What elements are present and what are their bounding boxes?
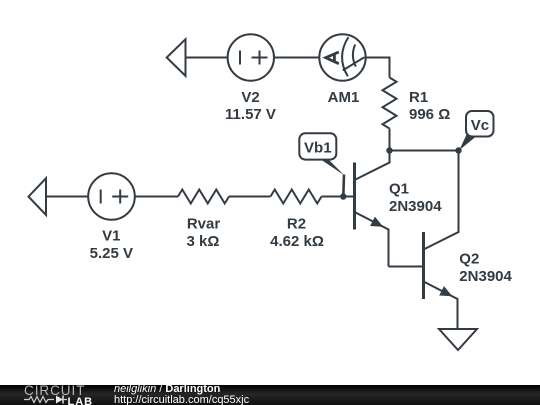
ammeter AM1: [319, 34, 365, 80]
svg-text:2N3904: 2N3904: [459, 268, 512, 285]
footer bar: [0, 385, 540, 405]
svg-text:Rvar: Rvar: [187, 216, 221, 233]
transistor Q1: [355, 151, 390, 267]
wire node A to node B: [390, 150, 459, 152]
svg-text:4.62 kΩ: 4.62 kΩ: [270, 233, 324, 250]
svg-text:3 kΩ: 3 kΩ: [187, 233, 220, 250]
svg-text:V2: V2: [241, 89, 259, 106]
wire R1 to node A: [389, 129, 391, 151]
svg-text:996 Ω: 996 Ω: [409, 106, 450, 123]
node label flag Vb1: [299, 133, 344, 196]
footer author / title: [114, 384, 220, 394]
ground: [439, 329, 477, 350]
svg-text:Q2: Q2: [459, 251, 479, 268]
svg-text:Vc: Vc: [471, 117, 489, 134]
footer url: [114, 394, 249, 405]
svg-text:Q1: Q1: [389, 180, 409, 197]
svg-text:5.25 V: 5.25 V: [90, 245, 133, 262]
wire Rvar to R2: [229, 196, 271, 198]
wire R2 to Q1 base: [322, 196, 355, 198]
ammeter A glyph: [326, 52, 339, 64]
resistor R1: [383, 78, 397, 129]
CircuitLab logo: [0, 385, 100, 405]
wire AM1 to R1: [366, 58, 390, 78]
svg-text:11.57 V: 11.57 V: [225, 106, 276, 123]
net flag for V2 negative terminal: [167, 39, 186, 76]
resistor R2: [271, 190, 322, 204]
wire flag to V1: [46, 196, 88, 198]
svg-text:LAB: LAB: [68, 395, 94, 404]
net flag for V1 negative terminal: [29, 178, 47, 215]
transistor Q2: [424, 232, 459, 330]
node C junction dot (Q1 base): [340, 193, 346, 199]
svg-text:R2: R2: [287, 216, 306, 233]
resistor Rvar: [178, 190, 229, 204]
wire Q1 emitter to Q2 base: [389, 266, 424, 268]
voltage source V2: [228, 34, 274, 80]
svg-text:R1: R1: [409, 89, 428, 106]
svg-text:Vb1: Vb1: [304, 139, 332, 156]
wire flag to V2: [186, 57, 228, 59]
node label flag Vc: [459, 111, 493, 150]
svg-text:V1: V1: [102, 228, 120, 245]
svg-text:2N3904: 2N3904: [389, 198, 442, 215]
wire V2 to AM1: [274, 57, 319, 59]
node A junction dot: [386, 147, 392, 153]
svg-text:AM1: AM1: [328, 89, 360, 106]
voltage source V1: [88, 173, 135, 220]
node B junction dot: [455, 147, 461, 153]
wire node B down to Q2 collector: [458, 151, 460, 232]
wire V1 to Rvar: [135, 196, 178, 198]
